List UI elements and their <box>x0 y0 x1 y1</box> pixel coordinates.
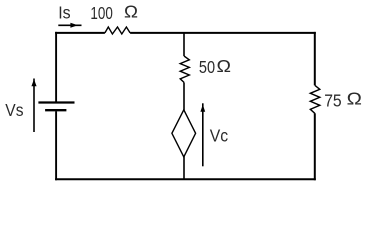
svg-text:Vc: Vc <box>210 125 229 145</box>
svg-text:Ω: Ω <box>217 56 232 76</box>
svg-text:Is: Is <box>58 2 71 22</box>
svg-text:50: 50 <box>199 57 215 77</box>
svg-text:75: 75 <box>324 90 342 110</box>
svg-text:100: 100 <box>90 3 113 23</box>
svg-text:Vs: Vs <box>5 100 23 120</box>
svg-text:Ω: Ω <box>347 89 362 109</box>
svg-text:Ω: Ω <box>124 1 138 21</box>
